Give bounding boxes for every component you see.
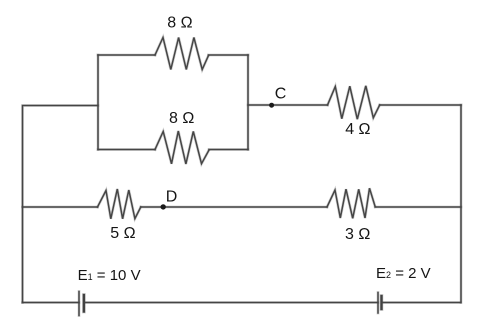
svg-text:5 Ω: 5 Ω bbox=[110, 225, 135, 242]
svg-text:3 Ω: 3 Ω bbox=[345, 226, 370, 243]
svg-text:E2 = 2 V: E2 = 2 V bbox=[376, 265, 431, 282]
svg-text:8 Ω: 8 Ω bbox=[169, 110, 194, 127]
svg-text:8 Ω: 8 Ω bbox=[167, 15, 192, 32]
svg-text:D: D bbox=[166, 188, 178, 205]
svg-text:C: C bbox=[275, 85, 287, 102]
svg-text:E1 = 10 V: E1 = 10 V bbox=[78, 267, 141, 284]
svg-text:4 Ω: 4 Ω bbox=[345, 121, 370, 138]
